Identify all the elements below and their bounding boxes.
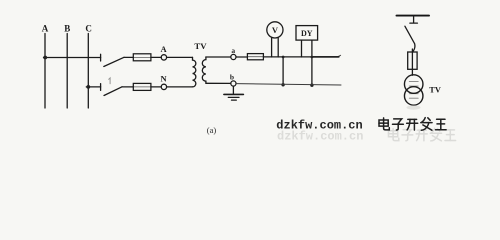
secondary wire a	[206, 56, 231, 58]
secondary bottom wire	[236, 84, 341, 85]
voltmeter PV	[267, 22, 283, 38]
wire	[122, 86, 133, 88]
wire	[151, 86, 161, 88]
watermark chinese 电子开发王	[379, 118, 446, 131]
relay DY box	[296, 26, 318, 40]
char 子	[393, 119, 404, 130]
terminal N	[161, 84, 166, 89]
svg-text:TV: TV	[194, 41, 207, 51]
heavy ink segment	[313, 56, 339, 58]
mini fuse wire	[411, 49, 413, 75]
wire tap from phase A	[44, 57, 101, 59]
junction dot on A	[43, 56, 47, 60]
svg-text:(a): (a)	[207, 125, 217, 135]
svg-text:C: C	[85, 24, 92, 34]
svg-text:A: A	[42, 24, 49, 34]
fuse FU1	[133, 56, 151, 58]
svg-text:B: B	[64, 24, 70, 34]
bus line A	[44, 34, 46, 109]
fuse FU3	[247, 56, 263, 58]
char 发	[421, 118, 432, 131]
DY legs	[301, 40, 303, 57]
svg-text:DY: DY	[301, 29, 313, 38]
mini transformer TV circle 1	[404, 75, 423, 94]
wire to TV primary bottom	[167, 86, 193, 88]
TV primary winding	[193, 57, 196, 86]
ground bars	[224, 93, 244, 95]
terminal a	[231, 54, 236, 59]
terminal A	[161, 55, 166, 60]
end tick	[337, 55, 340, 57]
secondary top wire	[263, 56, 339, 58]
switch QS2 fixed contact	[100, 84, 102, 91]
mini switch blade	[405, 26, 415, 52]
svg-text:dzkfw.com.cn: dzkfw.com.cn	[277, 129, 363, 143]
faint mark 1 above QS2	[109, 78, 110, 84]
svg-text:a: a	[231, 46, 235, 55]
ground stem	[232, 86, 234, 94]
switch QS1 fixed contact	[100, 54, 102, 61]
scan smudge below TV	[407, 105, 421, 109]
svg-text:V: V	[272, 25, 279, 35]
terminal b	[231, 81, 236, 86]
wire	[236, 56, 247, 58]
svg-text:b: b	[230, 72, 234, 81]
svg-text:N: N	[161, 73, 168, 83]
wire	[151, 56, 161, 58]
junction dot on C	[86, 85, 90, 89]
wire tap from phase C	[86, 86, 100, 88]
wire to TV primary top	[167, 56, 193, 58]
svg-text:A: A	[161, 44, 168, 54]
char 王	[436, 119, 447, 130]
mini transformer TV circle 2	[404, 87, 423, 106]
wire	[124, 56, 133, 58]
winding dashes	[409, 81, 418, 83]
secondary wire b	[206, 82, 231, 84]
dropper wire 1	[282, 57, 284, 85]
switch QS1 blade	[104, 57, 124, 66]
bus line B	[66, 34, 68, 109]
mini fuse FU	[408, 52, 417, 69]
mini switch contact	[410, 22, 418, 24]
mini stem	[413, 16, 415, 23]
voltmeter legs	[271, 37, 273, 57]
chinese ghost	[389, 128, 456, 141]
mini diagram: busbar	[397, 15, 430, 17]
switch QS2 blade	[104, 87, 122, 96]
dropper wire 2	[311, 57, 313, 85]
svg-text:TV: TV	[429, 86, 441, 95]
char 电	[379, 118, 389, 130]
char 开	[407, 119, 418, 130]
fuse FU2	[133, 86, 151, 88]
bus line C	[87, 34, 89, 109]
TV secondary winding	[202, 57, 206, 83]
